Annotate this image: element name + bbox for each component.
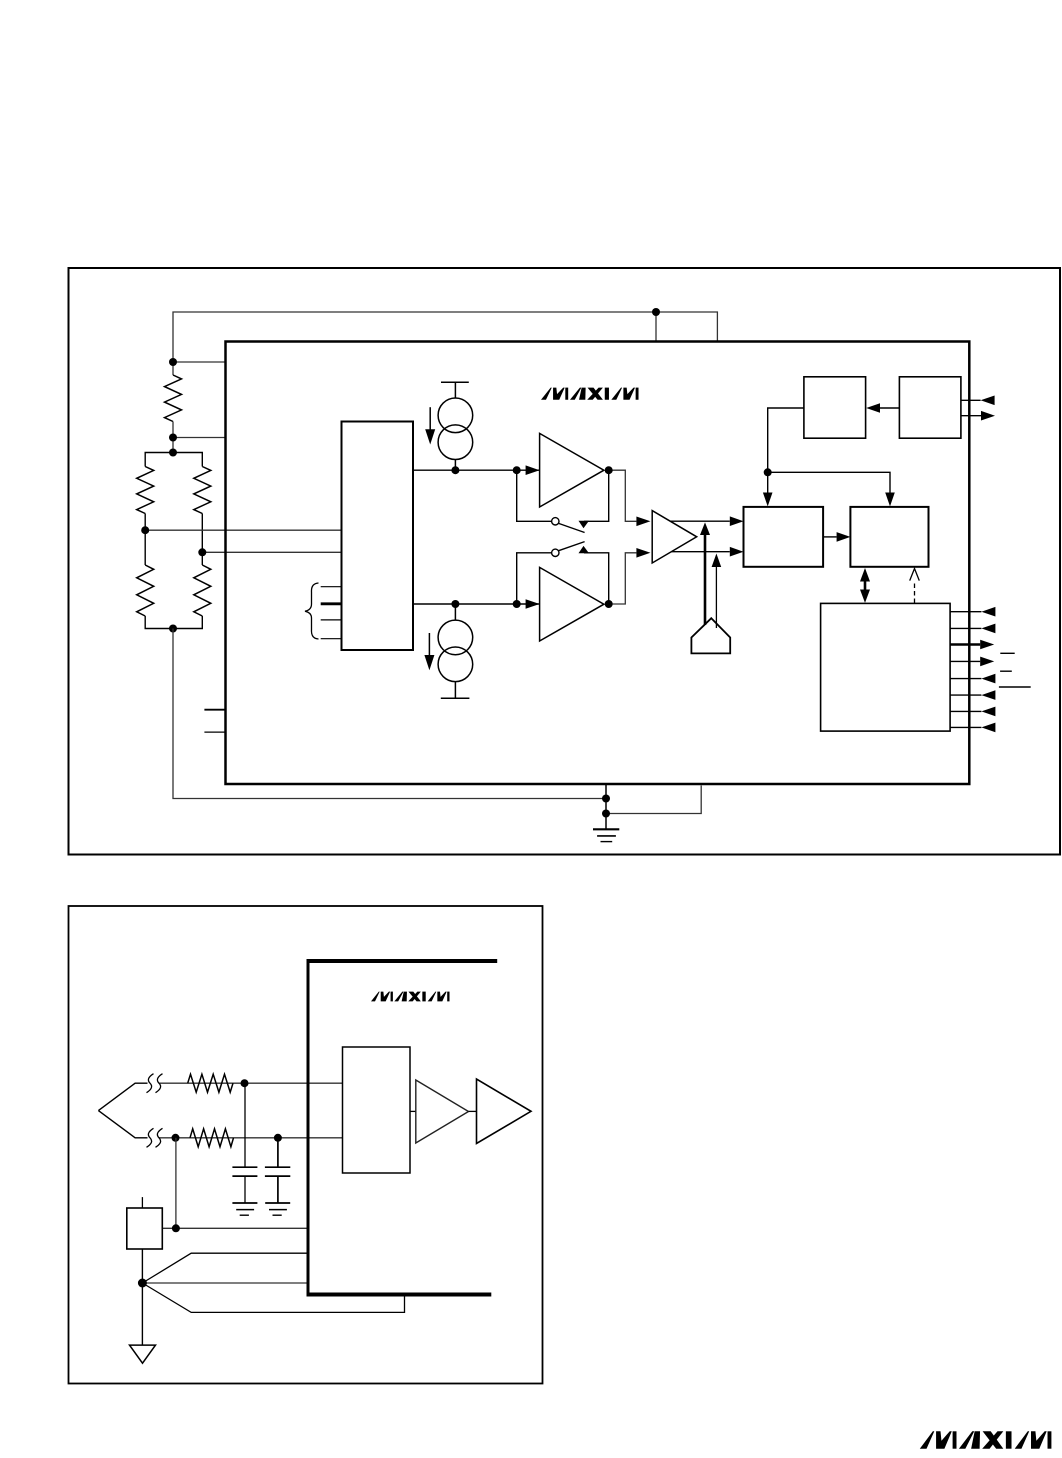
arrowhead into block D <box>885 493 895 507</box>
block C adc <box>744 507 824 567</box>
block B2 clock in <box>899 377 961 438</box>
wire amp2 out to mux <box>609 553 637 604</box>
node V+ top <box>652 308 660 316</box>
wire adc in 2 <box>670 551 730 553</box>
wire amp1 out to switch contact <box>584 470 609 521</box>
arrowhead into block C <box>763 493 773 507</box>
wire block to amp <box>410 1110 416 1112</box>
switch S2 lever <box>559 542 585 551</box>
FIGURE 2 <box>69 906 543 1384</box>
IC U2 top bar <box>307 959 498 963</box>
node I1 out <box>451 466 459 474</box>
wire amp1 in to switch <box>517 470 552 521</box>
capacitor C1 <box>232 1083 257 1203</box>
ground C1 <box>232 1203 257 1215</box>
pin stub left 1 <box>204 709 225 711</box>
node crystal <box>172 1224 180 1232</box>
IC U1 outline <box>226 342 970 785</box>
node A1 <box>169 358 177 366</box>
node A2 <box>169 434 177 442</box>
wire bridge out minus <box>202 551 341 553</box>
arrow B2 to B1 <box>880 407 899 409</box>
clock pin out <box>961 415 981 417</box>
pin row 7 <box>950 710 981 712</box>
brace <box>305 583 319 639</box>
pin stub left 2 <box>204 731 225 733</box>
wire adc in 1 <box>670 520 730 522</box>
op-amp A2 <box>540 567 604 641</box>
arrow D-E bidirectional <box>864 579 867 593</box>
wire clock to blocks C and D <box>768 408 804 472</box>
node bridge out minus <box>198 548 206 556</box>
node amp1 in <box>513 466 521 474</box>
clock pin in <box>961 399 981 401</box>
arrowhead adc in 1 <box>730 516 744 526</box>
resistor R6 <box>188 1074 233 1092</box>
reference pentagon <box>691 618 730 653</box>
ground symbol fig1 <box>593 814 619 842</box>
wire ground return left <box>173 629 606 799</box>
node amp2 in <box>513 600 521 608</box>
switch S2 pole <box>552 549 559 556</box>
switch S1 pole <box>552 518 559 525</box>
pin row 3 <box>950 643 980 645</box>
arrow C to D <box>823 536 837 538</box>
node bridge bottom <box>169 625 177 633</box>
wire bridge top rail <box>145 453 202 467</box>
wire input minus <box>159 1137 343 1139</box>
Maxim logo figure 1 <box>541 388 639 400</box>
wire bridge bottom rail <box>145 616 202 629</box>
node I2 in <box>451 600 459 608</box>
block B1 oscillator <box>804 377 866 438</box>
overbar label 2 <box>1000 670 1012 672</box>
calibration pin 4 <box>321 638 342 640</box>
overbar label 3 <box>999 686 1031 688</box>
arrowhead adc in 2 <box>730 547 744 557</box>
buffer amp A3 <box>652 511 697 563</box>
current source I1 <box>438 382 473 470</box>
node input plus <box>241 1079 249 1087</box>
wire amp1 out to mux <box>609 470 637 521</box>
twisted pair source <box>98 1083 147 1138</box>
ground triangle fig2 <box>130 1345 156 1363</box>
wire amp2 out to switch contact <box>584 553 609 604</box>
node input minus right <box>274 1134 282 1142</box>
calibration pin 1 <box>321 586 342 588</box>
crystal stub top <box>141 1197 143 1208</box>
pin row 8 <box>950 726 981 728</box>
block D filter <box>850 507 928 567</box>
amp T1 <box>416 1080 469 1143</box>
wire fan line 3 <box>142 1283 404 1312</box>
node bridge top <box>169 449 177 457</box>
node fan <box>138 1279 147 1288</box>
node clock branch <box>764 468 772 476</box>
amp T2 <box>477 1079 532 1144</box>
IC U2 bottom bar <box>307 1293 492 1297</box>
switch S1 lever <box>559 523 585 532</box>
reference arrow thick <box>704 534 707 625</box>
wire input plus <box>159 1082 343 1084</box>
wire amp to amp <box>469 1110 477 1112</box>
wire crystal bottom <box>141 1249 143 1283</box>
pin row 2 <box>950 627 981 629</box>
Maxim logo bottom right <box>920 1431 1052 1448</box>
wire bridge right mid <box>201 514 203 566</box>
Maxim logo figure 2 <box>371 992 450 1002</box>
mux block U1a <box>342 422 414 651</box>
node ground 1 <box>602 795 610 803</box>
wire fan line 2 <box>142 1282 307 1284</box>
wire bridge out plus <box>145 529 341 531</box>
overbar label 1 <box>1000 652 1014 654</box>
current source I2 <box>438 604 473 698</box>
node ground 2 <box>602 810 610 818</box>
node bridge out plus <box>141 526 149 534</box>
wire break squiggle minus <box>147 1128 163 1147</box>
reference arrow thin <box>715 566 717 628</box>
switch S2 contact arrow <box>579 546 590 553</box>
wire break squiggle plus <box>147 1074 163 1093</box>
wire crystal node up <box>175 1138 177 1229</box>
wire amp1 input <box>413 469 540 471</box>
wire IC ground pin <box>605 784 607 814</box>
pin row 5 <box>950 678 981 680</box>
arrowhead mux in 2 <box>636 548 650 558</box>
pin row 1 <box>950 611 981 613</box>
op-amp A1 <box>540 433 604 507</box>
wire bridge left mid <box>144 514 146 566</box>
calibration pin 3 <box>321 619 342 621</box>
node amp1 out <box>605 466 613 474</box>
capacitor C2 <box>265 1138 290 1203</box>
wire R1 to bridge <box>172 422 174 453</box>
wire amp2 in to switch <box>517 553 552 604</box>
arrow I2 direction <box>428 633 430 657</box>
arrowhead amp2 in <box>526 599 540 609</box>
wire to IC pin at y362 <box>173 361 226 363</box>
crystal Y1 <box>127 1208 163 1249</box>
arrow E-D dashed <box>914 581 916 603</box>
wire amp2 input <box>413 603 540 605</box>
resistor R2 bridge left top <box>137 467 154 514</box>
resistor R7 <box>190 1129 234 1147</box>
arrowhead mux in 1 <box>636 517 650 527</box>
wire to ground fig2 <box>141 1283 143 1345</box>
arrow I1 direction <box>429 407 431 431</box>
block E digital interface <box>821 603 951 731</box>
wire fan line 1 <box>142 1253 307 1283</box>
input block U2a <box>343 1047 411 1173</box>
pin row 4 <box>950 660 980 662</box>
resistor R1 <box>165 375 182 422</box>
node input minus left <box>172 1134 180 1142</box>
resistor R5 bridge right bottom <box>194 565 211 616</box>
wire ground link right <box>606 786 701 814</box>
switch S1 contact arrow <box>579 521 590 528</box>
wire to IC pin at y437.5 <box>173 437 226 439</box>
IC U2 left edge <box>307 960 310 1297</box>
calibration pin 2 <box>321 602 342 605</box>
resistor R3 bridge right top <box>194 467 211 514</box>
FIGURE 1 <box>69 268 1061 855</box>
node amp2 out <box>605 600 613 608</box>
arrowhead amp1 in <box>526 465 540 475</box>
wire crystal to IC <box>162 1227 307 1229</box>
resistor R4 bridge left bottom <box>137 565 154 616</box>
pin row 6 <box>950 694 981 696</box>
ground C2 <box>265 1203 290 1215</box>
wire V+ supply top <box>173 312 717 375</box>
